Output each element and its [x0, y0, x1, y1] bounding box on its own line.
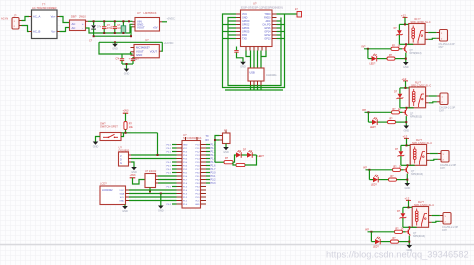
svg-text:CN?: CN?: [439, 109, 444, 112]
svg-text:NPN(9013): NPN(9013): [413, 235, 425, 238]
svg-text:P0.1: P0.1: [167, 204, 172, 206]
svg-text:GND: GND: [136, 53, 142, 57]
svg-text:LCD1602: LCD1602: [102, 189, 113, 192]
svg-text:SDA: SDA: [120, 192, 125, 195]
svg-text:LED?: LED?: [258, 155, 265, 158]
svg-text:GND: GND: [223, 151, 229, 154]
svg-text:GND: GND: [122, 210, 128, 213]
svg-text:U?: U?: [145, 38, 149, 42]
svg-text:USB: USB: [250, 71, 255, 74]
svg-text:LED?: LED?: [370, 63, 376, 65]
svg-text:NPN(9013): NPN(9013): [410, 52, 422, 55]
svg-text:LED?: LED?: [371, 184, 377, 186]
svg-text:SRD-12VDC-SL-C: SRD-12VDC-SL-C: [411, 21, 431, 24]
svg-text:GND: GND: [124, 72, 130, 75]
svg-text:GND: GND: [404, 129, 410, 132]
svg-text:+5VDC: +5VDC: [167, 16, 176, 20]
svg-text:GND: GND: [240, 66, 246, 69]
svg-text:2W10: 2W10: [79, 15, 86, 19]
svg-text:+12VDC: +12VDC: [164, 41, 174, 45]
svg-text:GND: GND: [403, 66, 409, 69]
svg-text:U?: U?: [137, 11, 141, 15]
svg-text:https://blog.csdn.net/qq_39346: https://blog.csdn.net/qq_39346582: [326, 250, 469, 260]
svg-text:SWITCH-SPST: SWITCH-SPST: [100, 125, 118, 129]
svg-text:SRD-12VDC-SL-C: SRD-12VDC-SL-C: [414, 204, 434, 207]
svg-text:VCC: VCC: [119, 190, 124, 192]
svg-text:GND: GND: [183, 144, 188, 146]
svg-text:IN?: IN?: [365, 229, 370, 232]
svg-text:NPN(9013): NPN(9013): [410, 116, 422, 119]
svg-text:G: G: [120, 162, 122, 165]
svg-text:P0.1: P0.1: [167, 166, 172, 168]
svg-text:IN?: IN?: [362, 109, 367, 112]
svg-text:LM7805CK: LM7805CK: [144, 11, 157, 15]
svg-text:GND: GND: [93, 145, 99, 148]
svg-text:TX: TX: [206, 135, 209, 138]
svg-text:RX: RX: [206, 139, 210, 142]
svg-text:U?: U?: [183, 133, 187, 137]
svg-text:AC: AC: [72, 26, 76, 30]
svg-text:CN?: CN?: [439, 46, 444, 49]
svg-text:DB?: DB?: [71, 15, 77, 19]
svg-text:P0.1: P0.1: [167, 162, 172, 164]
svg-text:GND: GND: [195, 204, 200, 206]
svg-text:DS18B20: DS18B20: [119, 149, 130, 152]
svg-text:U? 24C02: U? 24C02: [145, 170, 157, 173]
svg-text:GND: GND: [112, 48, 118, 51]
svg-text:AC_A: AC_A: [33, 15, 40, 19]
svg-text:LED?: LED?: [373, 246, 379, 248]
svg-text:P0.1: P0.1: [167, 187, 172, 189]
svg-text:IN?: IN?: [363, 167, 368, 170]
svg-text:GND: GND: [405, 187, 411, 190]
svg-text:VCC: VCC: [195, 200, 200, 202]
svg-text:+3V3: +3V3: [130, 174, 137, 177]
svg-text:CH340G: CH340G: [266, 73, 276, 77]
svg-text:J?: J?: [14, 13, 17, 17]
svg-text:Vo-: Vo-: [51, 30, 55, 34]
svg-text:SRD-12VDC-SL-C: SRD-12VDC-SL-C: [411, 84, 431, 87]
svg-text:VOUT: VOUT: [150, 49, 158, 53]
svg-text:AC_B: AC_B: [33, 30, 40, 34]
svg-text:P0.1: P0.1: [167, 152, 172, 154]
svg-text:GND: GND: [119, 200, 124, 202]
svg-text:TXD: TXD: [242, 38, 247, 41]
svg-text:SRD-12VDC-SL-C: SRD-12VDC-SL-C: [412, 142, 432, 145]
svg-text:VCC: VCC: [183, 148, 188, 150]
svg-text:+5V: +5V: [153, 26, 158, 30]
svg-text:AC-IN: AC-IN: [1, 17, 8, 21]
svg-text:-: -: [82, 26, 83, 30]
svg-text:P0.1: P0.1: [167, 148, 172, 150]
svg-text:+3V3: +3V3: [123, 109, 130, 112]
svg-text:VOUT: VOUT: [137, 26, 145, 30]
svg-text:ESP-07/ESP-12F(ESP8266EX): ESP-07/ESP-12F(ESP8266EX): [241, 6, 283, 10]
svg-text:P0.1: P0.1: [167, 173, 172, 175]
svg-text:GP13: GP13: [264, 38, 271, 41]
svg-text:P3.3: P3.3: [211, 182, 217, 185]
svg-text:NPN(9013): NPN(9013): [411, 173, 423, 176]
svg-text:Vo+: Vo+: [51, 15, 56, 19]
svg-text:LED?: LED?: [370, 127, 376, 129]
svg-text:CN?: CN?: [440, 167, 445, 170]
svg-text:P0.1: P0.1: [167, 169, 172, 171]
svg-text:P0.1: P0.1: [167, 145, 172, 147]
svg-text:GND: GND: [158, 209, 164, 212]
svg-text:LCD?: LCD?: [100, 182, 107, 186]
svg-text:IN?: IN?: [362, 46, 367, 49]
svg-text:AC-TRANSFORMER: AC-TRANSFORMER: [32, 6, 57, 10]
svg-text:CN?: CN?: [442, 229, 447, 232]
